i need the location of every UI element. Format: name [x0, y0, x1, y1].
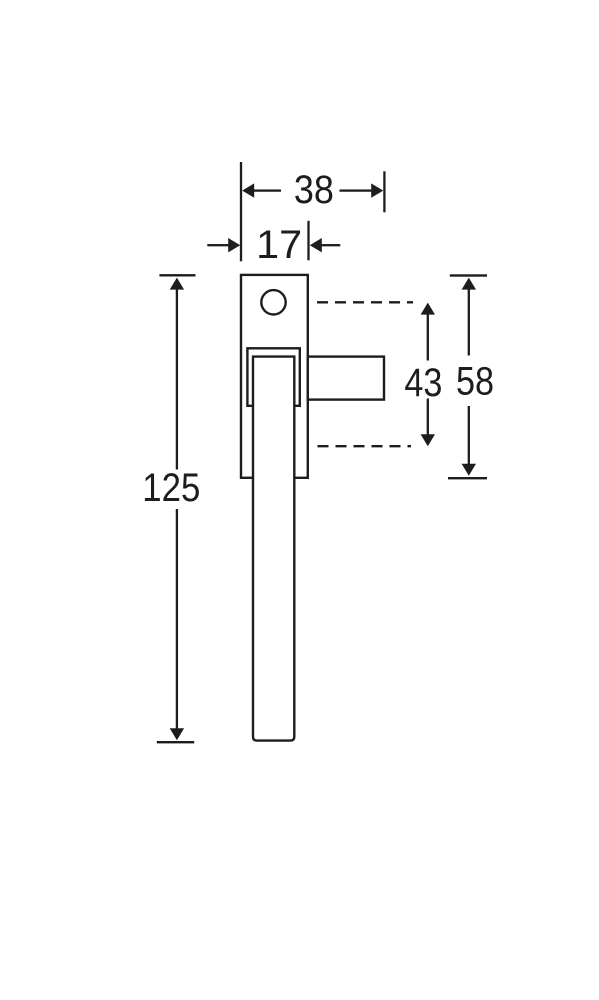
dimension 58 bottom arrow [462, 464, 476, 476]
dimension 17 right arrow [310, 238, 322, 252]
spindle [308, 357, 384, 400]
svg-text:43: 43 [404, 361, 442, 405]
dimension 125 bottom cap [157, 741, 194, 743]
svg-text:38: 38 [294, 168, 334, 212]
svg-text:17: 17 [256, 223, 302, 267]
screw hole [261, 290, 285, 314]
dimension 58 top arrow [462, 278, 476, 290]
dimension 43 top arrow [421, 303, 435, 315]
dimension 58 top cap [450, 274, 487, 276]
handle back plate [241, 275, 308, 478]
svg-text:125: 125 [142, 466, 200, 510]
extension line right (38) [383, 171, 385, 212]
dimension line 38 right arrow [340, 189, 372, 191]
dimension 125 top arrow [170, 278, 184, 290]
dimension 125 top cap [159, 274, 195, 276]
dimension 43 line upper segment [427, 313, 429, 361]
dimension 17 left arrow [207, 244, 229, 246]
handle neck collar [247, 348, 299, 406]
dimension 43 bottom arrow [421, 434, 435, 446]
dimension 43 line lower segment [427, 399, 429, 436]
extension line right (17) [307, 221, 309, 260]
dimension 125 line upper segment [176, 288, 178, 470]
svg-text:58: 58 [456, 359, 494, 403]
dimension 125 bottom arrow [170, 728, 184, 740]
reference dashed line upper [317, 301, 413, 303]
dimension 58 bottom cap [448, 477, 487, 479]
dimension 125 line lower segment [176, 509, 178, 730]
handle lever bar [253, 357, 294, 741]
reference dashed line lower [318, 445, 412, 447]
dimension 58 line lower segment [468, 406, 470, 465]
dimension 58 line upper segment [468, 288, 470, 356]
dimension line 38 left arrow [242, 183, 254, 197]
extension line left (38/17) [240, 162, 242, 261]
